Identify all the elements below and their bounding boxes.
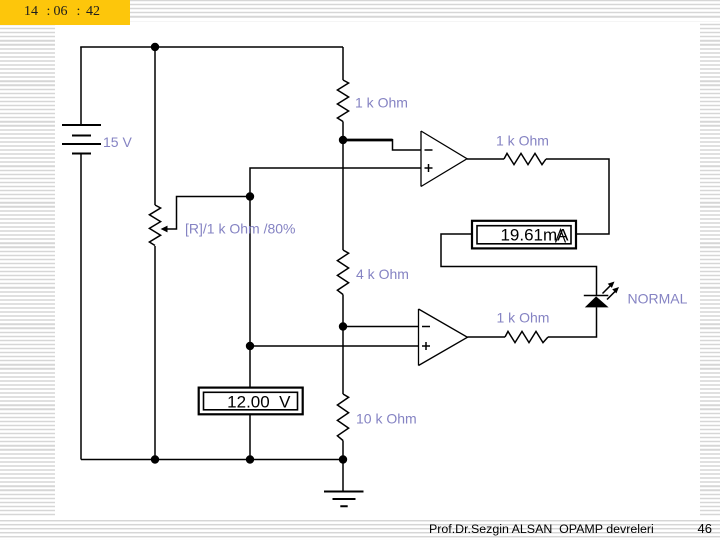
svg-text:4 k Ohm: 4 k Ohm	[356, 266, 409, 282]
svg-text:12.00 V: 12.00 V	[227, 393, 291, 412]
svg-text:[R]/1 k Ohm /80%: [R]/1 k Ohm /80%	[185, 221, 295, 237]
svg-text:15 V: 15 V	[103, 134, 132, 150]
svg-text:1 k Ohm: 1 k Ohm	[497, 310, 550, 326]
svg-text:1 k Ohm: 1 k Ohm	[496, 133, 549, 149]
svg-text:1 k Ohm: 1 k Ohm	[355, 95, 408, 111]
svg-text:10 k Ohm: 10 k Ohm	[356, 411, 417, 427]
svg-text:NORMAL: NORMAL	[628, 291, 688, 307]
